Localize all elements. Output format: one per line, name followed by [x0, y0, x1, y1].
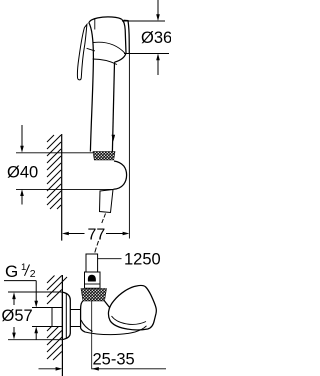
wall hatch bottom section: [47, 276, 69, 361]
valve knurled nut: [81, 289, 107, 302]
dimension 77: [62, 232, 129, 236]
supply pipe in wall: [32, 308, 62, 327]
dimension Ø57: [8, 292, 62, 340]
wall line bottom section: [61, 275, 63, 376]
hand shower head: [89, 17, 130, 65]
dimension Ø36: [122, 0, 169, 75]
svg-text:Ø57: Ø57: [2, 307, 33, 325]
svg-text:G: G: [5, 262, 18, 281]
hand shower handle: [89, 23, 115, 152]
valve centerline: [91, 301, 93, 369]
G 1/2 leader: underline and dimension arrows: [4, 281, 38, 340]
svg-text:25-35: 25-35: [93, 351, 135, 369]
svg-text:Ø36: Ø36: [141, 29, 171, 47]
valve body: [81, 301, 111, 332]
coupling cone: [88, 275, 96, 282]
dimension Ø40: [16, 125, 114, 205]
escutcheon: [62, 292, 70, 339]
svg-text:77: 77: [88, 226, 106, 243]
svg-text:1: 1: [21, 262, 26, 273]
svg-text:2: 2: [30, 268, 36, 280]
wall line top section: [61, 134, 63, 241]
right extension line of 77: [128, 54, 130, 239]
leader line to 1250: [98, 258, 122, 260]
fan handle: [108, 285, 156, 329]
valve inlet neck: [70, 310, 80, 327]
label G 1/2: [5, 262, 36, 281]
wall holder: [114, 161, 127, 189]
fan handle skirt: [85, 326, 147, 335]
svg-text:Ø40: Ø40: [7, 164, 38, 182]
hose connector below holder: [100, 190, 114, 213]
hose end piece: [86, 254, 98, 272]
hose dashes: [95, 214, 106, 253]
small down arrow on handle: [112, 135, 116, 142]
svg-text:1250: 1250: [124, 251, 161, 269]
dimension 25-35: [39, 367, 167, 371]
hose coupling box: [85, 272, 101, 288]
shower connection knurled nut: [93, 152, 115, 161]
wall hatch top section: [47, 135, 61, 209]
hand shower trigger lever: [77, 24, 94, 80]
